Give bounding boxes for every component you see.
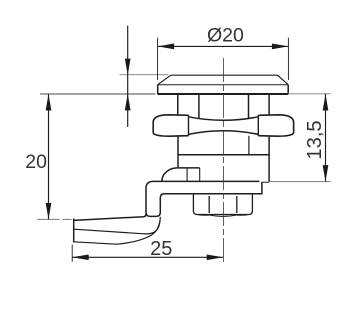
- big nut top middle arc: [189, 117, 259, 121]
- cam tongue bottom edge: [74, 222, 160, 245]
- big hex nut right end: [258, 115, 293, 136]
- svg-text:20: 20: [25, 151, 47, 173]
- arrowheads: [46, 44, 329, 261]
- hub shoulder line: [177, 167, 199, 169]
- arrow dia20 right: [272, 44, 289, 50]
- cam tongue mid edge: [74, 217, 161, 234]
- arrow dim20 down: [46, 203, 52, 220]
- arrow cap height down: [125, 59, 131, 76]
- big hex nut left end: [153, 115, 188, 136]
- arrow cap height up: [125, 94, 131, 111]
- body step shelf right: [262, 181, 269, 183]
- cap left edge: [157, 85, 159, 95]
- witness line dia20 left: [157, 38, 159, 80]
- cap brim line: [158, 84, 289, 86]
- neck outer right: [268, 94, 270, 114]
- body right edge: [268, 136, 270, 182]
- arrow dia20 left: [158, 44, 175, 50]
- dimension lines: [49, 26, 326, 262]
- witness cap top level: [119, 74, 168, 76]
- cap bottom edge: [158, 93, 289, 95]
- witness lines (gray): [37, 75, 331, 220]
- cap left chamfer: [158, 75, 171, 85]
- dim 25 line: [72, 256, 223, 258]
- svg-text:13,5: 13,5: [304, 120, 326, 159]
- body upper bottom line: [178, 154, 269, 156]
- dim 13,5 shaft: [325, 94, 327, 182]
- hub inner vertical: [186, 168, 188, 181]
- arrow dim25 right: [207, 254, 224, 260]
- small nut left facet line: [208, 196, 210, 213]
- witness tongue top left tick: [37, 218, 72, 220]
- svg-text:25: 25: [150, 238, 172, 260]
- small dim shaft: [127, 26, 129, 127]
- witness cap bottom left: [40, 93, 155, 95]
- small nut bottom facet arcs: [197, 215, 249, 217]
- witness cap bottom right: [288, 93, 331, 95]
- big nut right facet line: [257, 115, 259, 136]
- centre axis line: [222, 58, 224, 262]
- svg-text:Ø20: Ø20: [207, 25, 244, 47]
- body upper left edge: [177, 136, 179, 168]
- cap right edge: [287, 85, 289, 95]
- small hex nut outline: [193, 195, 252, 215]
- big nut bottom middle arc: [189, 131, 259, 135]
- cap right chamfer: [278, 75, 289, 85]
- neck inner right: [248, 94, 250, 118]
- dim line diameter 20: [158, 45, 289, 47]
- body inner step line: [248, 136, 250, 155]
- arrow dim135 down: [323, 165, 329, 182]
- witness line dia20 right: [287, 38, 289, 80]
- cam tongue top edge: [74, 214, 146, 221]
- cap top face: [171, 74, 278, 76]
- neck inner left: [198, 94, 200, 118]
- arrow dim135 up: [323, 94, 329, 111]
- hub right vertical: [199, 168, 201, 181]
- cam tongue tip edge: [73, 219, 75, 243]
- arrow dim25 left: [72, 254, 89, 260]
- arrow dim20 up: [46, 94, 52, 111]
- witness 25 left: [71, 245, 73, 262]
- cam dome arc: [162, 168, 177, 181]
- witness arm top right: [269, 181, 331, 183]
- big nut left facet line: [188, 115, 190, 136]
- small nut right facet line: [236, 196, 238, 213]
- cam plate and Z-bend contour: [146, 181, 262, 216]
- neck outer left: [177, 94, 179, 114]
- dim 20 shaft: [48, 94, 50, 219]
